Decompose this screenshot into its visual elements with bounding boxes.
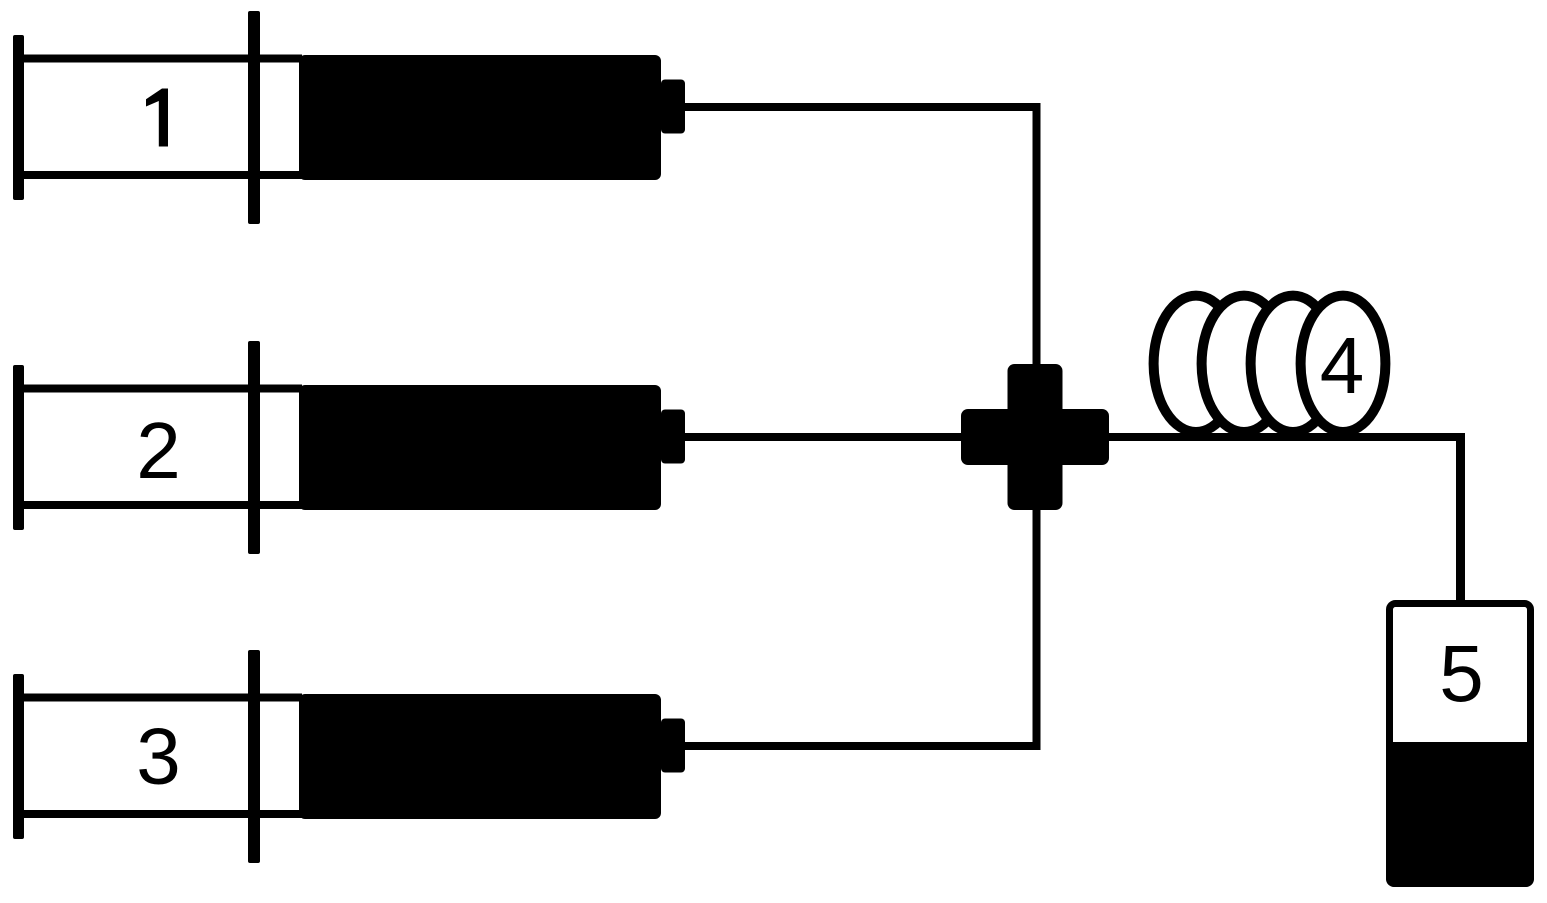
svg-text:2: 2 [136,406,181,495]
svg-text:4: 4 [1320,321,1365,410]
svg-text:5: 5 [1439,629,1484,718]
svg-text:3: 3 [136,712,181,801]
